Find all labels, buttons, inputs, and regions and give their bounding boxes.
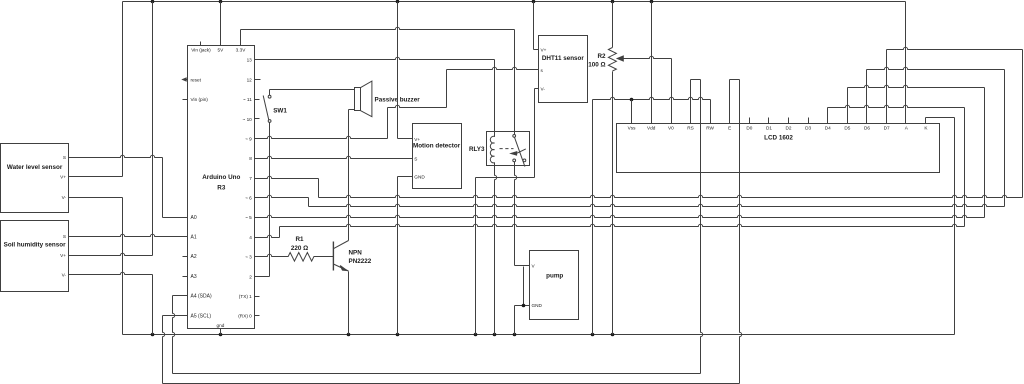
svg-text:E: E: [728, 126, 731, 131]
svg-text:D5: D5: [844, 126, 850, 131]
svg-text:D2: D2: [786, 126, 792, 131]
svg-text:NPN: NPN: [349, 250, 363, 257]
wire R2 wiper to V0: [621, 56, 672, 58]
pin Vin jack stub: [200, 42, 202, 46]
junction bus-relay coil: [493, 333, 497, 337]
wire 5V pin to rail: [220, 2, 222, 46]
pin A3 stub: [183, 276, 188, 278]
svg-text:Water level sensor: Water level sensor: [7, 164, 63, 171]
svg-text:Arduino Uno: Arduino Uno: [202, 174, 240, 181]
wire pump GND row: [515, 305, 530, 307]
svg-text:100 Ω: 100 Ω: [588, 61, 605, 68]
wire pump GND to bus: [514, 306, 516, 335]
wire rail to LCD Vdd: [651, 2, 653, 124]
wire D7 right vertical: [1022, 50, 1024, 198]
svg-text:RW: RW: [706, 126, 714, 131]
junction rail-5V pin: [219, 0, 223, 3]
relay common contact: [513, 135, 516, 138]
svg-text:V-: V-: [62, 195, 67, 200]
soil humidity sensor U3: [1, 221, 69, 292]
wire RS pin up: [690, 80, 692, 124]
junction bus-Vss/RW: [591, 333, 595, 337]
wire pin4 row: [255, 235, 280, 237]
pump M1: [530, 251, 579, 320]
wire E pin up: [729, 80, 731, 124]
buzzer body: [355, 88, 361, 111]
buzzer cone: [360, 81, 372, 117]
svg-text:D1: D1: [766, 126, 772, 131]
wire pin6 row: [255, 195, 309, 197]
wire Vss pin: [631, 100, 633, 124]
wire coil bottom to bus: [495, 166, 497, 335]
wire DHT V- row: [476, 177, 535, 179]
DHT11 sensor U5: [539, 36, 588, 103]
wire DHT V+ row: [534, 49, 539, 51]
junction bus-arduino gnd: [219, 333, 223, 337]
svg-text:A2: A2: [191, 254, 197, 260]
wire R1 to base: [314, 256, 334, 258]
junction bus-pump gnd: [513, 333, 517, 337]
pin reset stub: [183, 79, 188, 81]
pin A2 stub: [183, 256, 188, 258]
wire motion GND row: [398, 176, 413, 178]
wire RS bracket: [691, 79, 701, 81]
potentiometer R2: [608, 48, 616, 72]
wire soil V- to bus: [152, 275, 154, 335]
svg-text:220 Ω: 220 Ω: [291, 245, 308, 252]
wire D4 pin up: [827, 108, 829, 124]
wire D5 bracket row: [848, 85, 985, 87]
wire water S down to A0: [162, 158, 164, 218]
svg-text:R1: R1: [295, 236, 304, 243]
wire emitter to bus: [348, 272, 350, 335]
wire A5 down: [163, 316, 165, 384]
reset arrow: [183, 78, 187, 81]
junction bus-soil V-: [151, 333, 155, 337]
wire A4 row: [173, 295, 188, 297]
junction rail-LCD Vdd: [650, 0, 654, 3]
wire 3.3V down to relay common: [514, 30, 516, 135]
svg-text:A1: A1: [191, 234, 197, 240]
wire ground bus: [123, 334, 955, 336]
svg-text:7: 7: [249, 176, 252, 181]
LCD D0-D3 stubs: [749, 118, 751, 124]
pin 0 stub: [255, 315, 260, 317]
switch SW1 bottom contact: [268, 120, 271, 123]
relay actuator line: [517, 149, 526, 153]
svg-text:RLY3: RLY3: [469, 146, 485, 153]
wire DHT V- stub: [535, 88, 539, 90]
svg-text:(TX) 1: (TX) 1: [239, 294, 252, 299]
wire rail to soil V+: [152, 2, 154, 256]
wire RW pin: [710, 100, 712, 124]
wire pin6 jog down: [308, 198, 310, 207]
wire rail to motion V+: [397, 2, 399, 139]
wire bus row D6: [309, 204, 1005, 206]
svg-text:D7: D7: [884, 126, 890, 131]
wire 5V top rail: [123, 1, 906, 3]
pin 11 stub: [255, 99, 260, 101]
LCD 1602 U6: [617, 124, 940, 173]
arduino uno R3: [188, 46, 255, 329]
wire SCL bottom row: [163, 383, 740, 384]
svg-text:~ 3: ~ 3: [245, 255, 252, 260]
wire pin4 jog up: [279, 227, 281, 238]
wire A0 row: [163, 217, 188, 219]
wire pin7 jog down: [318, 179, 320, 198]
wire K right vertical to bus: [954, 118, 956, 335]
wire buzzer to collector: [348, 110, 350, 241]
svg-text:pump: pump: [546, 273, 563, 280]
wire SDA bottom row: [173, 373, 701, 375]
svg-text:V-: V-: [541, 86, 546, 91]
pin 1 stub: [255, 296, 260, 298]
svg-text:2: 2: [249, 274, 252, 279]
wire buzzer bottom: [349, 109, 355, 111]
svg-text:V+: V+: [60, 174, 66, 179]
svg-text:A0: A0: [191, 215, 197, 221]
wire SW1 to buzzer: [270, 89, 355, 91]
wire pin13 row: [255, 57, 495, 59]
wire 3.3V pin up: [240, 30, 242, 46]
svg-text:R2: R2: [597, 53, 606, 60]
junction bus-DHT V-: [474, 333, 478, 337]
relay contact right: [523, 159, 526, 162]
wire relay NO down: [523, 267, 525, 306]
svg-text:Vss: Vss: [628, 126, 636, 131]
relay actuator arrow: [511, 152, 517, 155]
wire rail down to LCD A: [905, 2, 907, 124]
wire A5 row: [163, 315, 188, 317]
svg-text:V+: V+: [541, 47, 547, 52]
wire pin9 mid row: [388, 105, 447, 107]
svg-text:reset: reset: [191, 77, 202, 82]
relay blade: [515, 137, 525, 166]
wire D6 pin up: [866, 70, 868, 124]
wire SW1 top terminal up: [269, 90, 271, 96]
svg-text:SW1: SW1: [273, 108, 287, 115]
wire motion V+ row: [398, 138, 413, 140]
pin 10 stub: [255, 118, 260, 120]
svg-text:GND: GND: [414, 175, 425, 180]
wire bus row D4: [280, 224, 965, 226]
svg-text:Motion detector: Motion detector: [413, 143, 461, 150]
junction rail-DHT V+: [532, 0, 536, 3]
wire pin8 to motion s: [255, 156, 413, 158]
wire E bracket: [730, 79, 740, 81]
pin Vin stub: [183, 99, 188, 101]
svg-text:V0: V0: [668, 126, 674, 131]
water level sensor U2: [1, 144, 69, 213]
wire D7 bracket row: [887, 47, 1023, 49]
svg-text:A5 (SCL): A5 (SCL): [191, 313, 212, 319]
wire pin7 row: [255, 176, 319, 178]
wire pin13 down to coil: [494, 60, 496, 132]
wire SW1 bottom vertical: [269, 123, 271, 277]
wire motion GND to bus: [397, 177, 399, 335]
svg-text:12: 12: [247, 77, 253, 82]
wire D6 right vertical: [1004, 70, 1006, 207]
wire pin2 row: [255, 276, 270, 278]
relay coil: [490, 132, 494, 166]
wire rail to water V+: [122, 2, 124, 177]
wire bus row D7: [319, 195, 1023, 197]
svg-text:5V: 5V: [218, 48, 225, 53]
switch SW1 blade: [263, 96, 269, 120]
svg-text:(RX) 0: (RX) 0: [238, 314, 252, 319]
wire water V- down to bus: [122, 198, 124, 335]
svg-text:PN2222: PN2222: [349, 258, 372, 265]
svg-text:~ 5: ~ 5: [245, 215, 252, 220]
wire pin3 to R1: [255, 254, 289, 256]
wire D5 pin up: [847, 88, 849, 124]
wire pin9 jog up: [387, 108, 389, 139]
wire DHT V- to bus: [475, 178, 477, 335]
wire A4 down: [173, 296, 175, 374]
svg-text:8: 8: [249, 156, 252, 161]
wire H1 left down to bus: [592, 100, 594, 335]
wire RS down to SDA row: [701, 80, 703, 374]
wire water V- row: [69, 197, 123, 199]
svg-text:D3: D3: [805, 126, 811, 131]
svg-text:D0: D0: [746, 126, 752, 131]
svg-text:Soil humidity sensor: Soil humidity sensor: [4, 242, 66, 249]
svg-text:~ 10: ~ 10: [243, 117, 253, 122]
wire D7 pin up: [886, 50, 888, 124]
transistor emitter arrow: [340, 266, 347, 271]
junction bus-R2 bottom: [611, 333, 615, 337]
svg-text:A3: A3: [191, 274, 197, 280]
svg-text:S: S: [63, 155, 66, 160]
svg-text:V-: V-: [62, 272, 67, 277]
wire DHT V- down: [534, 89, 536, 178]
svg-text:gnd: gnd: [216, 323, 224, 328]
wire K bracket row: [926, 117, 955, 119]
svg-text:~ 9: ~ 9: [245, 136, 252, 141]
junction pump gnd: [522, 304, 526, 308]
svg-text:RS: RS: [687, 126, 694, 131]
svg-text:V+: V+: [414, 137, 420, 142]
wire rail down to DHT V+: [533, 2, 535, 50]
svg-text:LCD 1602: LCD 1602: [764, 135, 793, 142]
svg-text:Vin (pin): Vin (pin): [191, 97, 209, 102]
wire relay NC to pump V: [515, 162, 517, 266]
wire gnd pin to bus: [220, 329, 222, 335]
svg-text:GND: GND: [532, 303, 543, 308]
wire D4 bracket row: [828, 105, 965, 107]
svg-text:R3: R3: [217, 185, 226, 192]
wire R2 bottom to bus: [612, 72, 614, 335]
svg-text:4: 4: [249, 235, 252, 240]
wire water V+ row: [69, 176, 123, 178]
resistor R1: [288, 253, 314, 262]
wire water S row: [69, 155, 163, 157]
relay RLY3: [487, 132, 530, 166]
wire rail to R2 top: [612, 2, 614, 48]
svg-text:DHT11 sensor: DHT11 sensor: [542, 55, 585, 62]
svg-text:A4 (SDA): A4 (SDA): [191, 294, 212, 300]
wire soil S to A1: [69, 234, 188, 236]
svg-text:D6: D6: [864, 126, 870, 131]
svg-text:Vin (jack): Vin (jack): [191, 48, 211, 53]
junction rail-R2: [611, 0, 615, 3]
wire D5 right vertical: [984, 88, 986, 218]
junction H1-Vss: [630, 98, 634, 102]
junction bus-motion gnd: [396, 333, 400, 337]
relay contact left: [513, 159, 516, 162]
pin 12 stub: [255, 79, 261, 81]
svg-text:~ 6: ~ 6: [245, 196, 252, 201]
relay actuator dashes: [500, 148, 514, 150]
wire pin9 row: [255, 136, 388, 138]
wire pump V row: [515, 265, 530, 267]
svg-text:13: 13: [247, 58, 253, 63]
junction bus-emitter: [347, 333, 351, 337]
wire soil V- row: [69, 272, 153, 274]
wire H1 Vss-RW row: [593, 97, 711, 99]
transistor bar: [332, 242, 334, 271]
svg-text:S: S: [414, 157, 417, 162]
svg-text:3.3V: 3.3V: [236, 48, 247, 53]
junction rail-soilV+: [151, 0, 155, 3]
wire V0 pin down: [671, 59, 673, 124]
svg-text:V+: V+: [60, 253, 66, 258]
wire soil V+ row: [69, 253, 153, 255]
junction rail-motion V+: [396, 0, 400, 3]
R2 wiper arrow: [617, 56, 623, 61]
svg-text:~ 11: ~ 11: [243, 97, 252, 102]
switch SW1 top contact: [268, 95, 271, 98]
wire bus row D5 (pin5): [255, 215, 985, 217]
wire D4 right vertical: [964, 108, 966, 227]
transistor collector lead: [333, 241, 348, 249]
wire D6 bracket row: [867, 67, 1005, 69]
svg-text:Vdd: Vdd: [647, 126, 656, 131]
motion detector U4: [413, 124, 462, 189]
wire K pin up: [925, 118, 927, 124]
transistor emitter lead: [333, 264, 348, 271]
wire DHT s row: [447, 67, 539, 69]
wire 3.3V row: [241, 27, 515, 29]
wire jog up to DHT s row: [446, 70, 448, 108]
wire E down to SCL row: [740, 80, 742, 384]
svg-text:D4: D4: [825, 126, 831, 131]
svg-text:S: S: [63, 234, 66, 239]
